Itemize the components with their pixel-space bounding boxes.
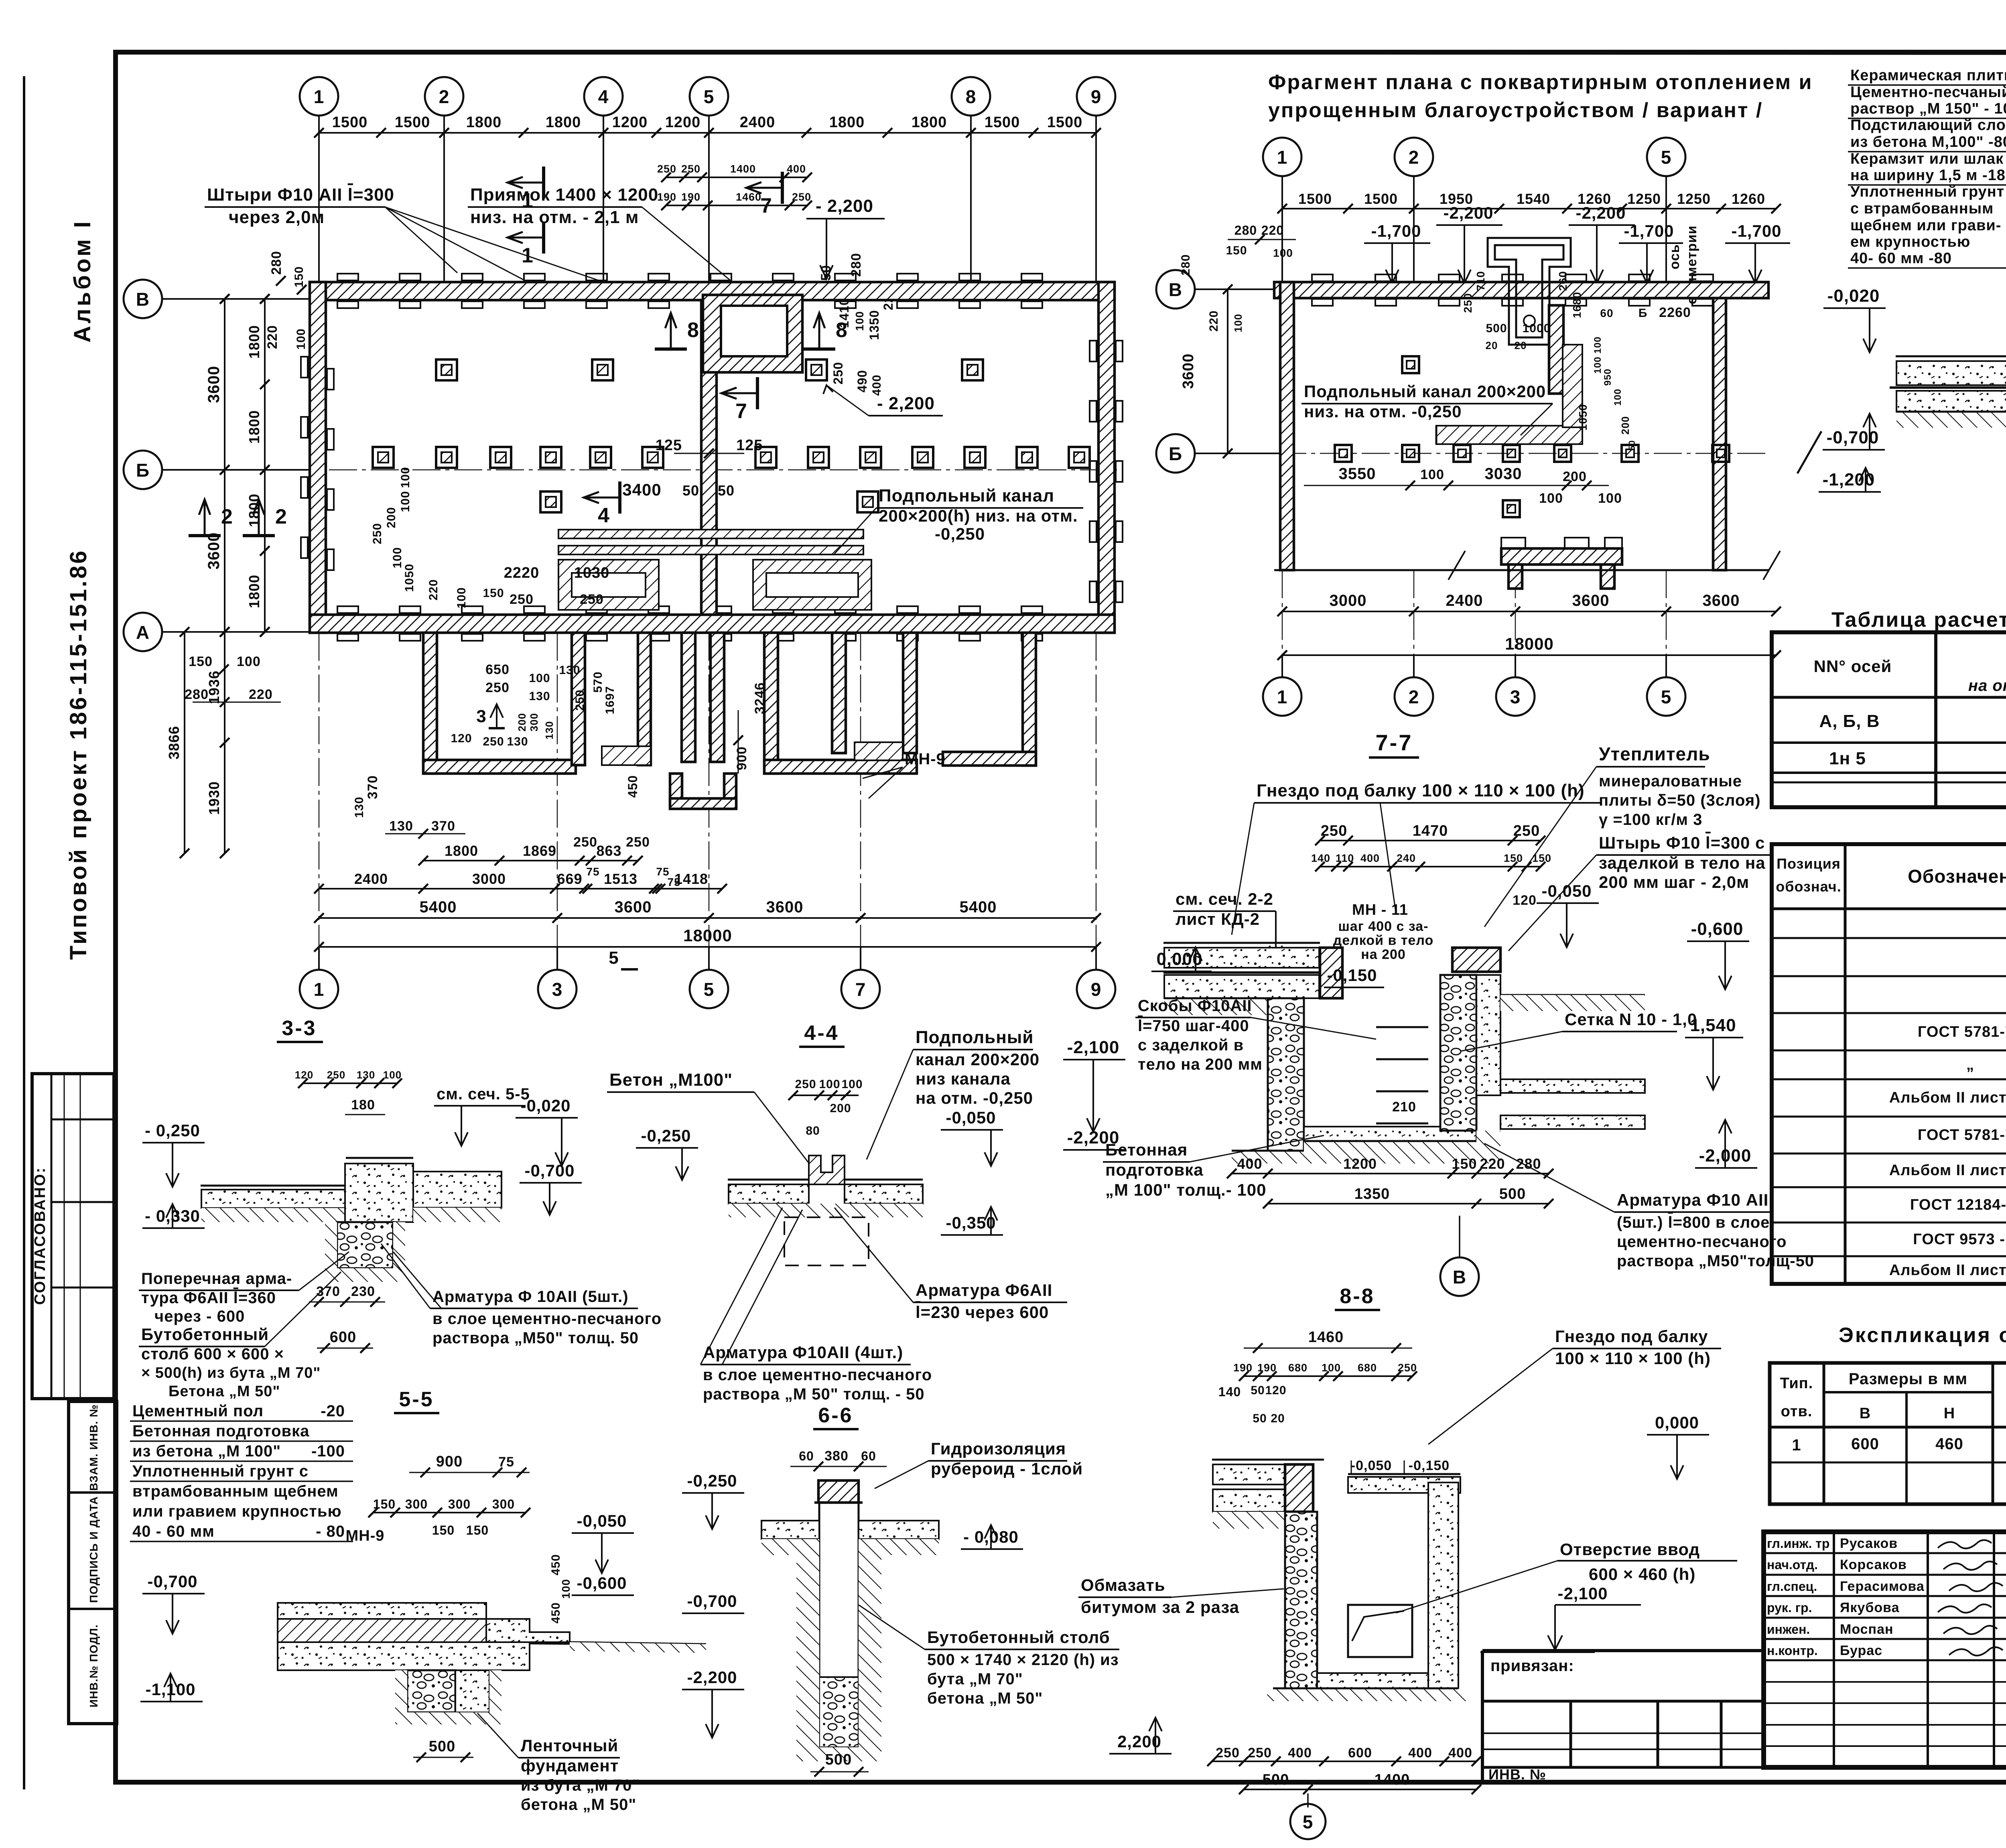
svg-text:Фрагмент плана с поквартирн: Фрагмент плана с поквартирным отоплением… <box>1268 71 1813 94</box>
svg-text:Сетка N 10 - 1,0: Сетка N 10 - 1,0 <box>1565 1010 1697 1029</box>
svg-text:Арматура Ф6АII: Арматура Ф6АII <box>916 1281 1052 1300</box>
fragment axis circles В Б left <box>1156 270 1195 309</box>
svg-text:-0,050: -0,050 <box>1351 1458 1392 1473</box>
svg-text:1800: 1800 <box>246 325 262 359</box>
svg-text:- 2,200: - 2,200 <box>877 394 935 413</box>
svg-text:низ канала: низ канала <box>916 1069 1011 1088</box>
svg-text:200: 200 <box>1563 469 1587 484</box>
svg-text:250: 250 <box>657 163 676 175</box>
svg-text:1050: 1050 <box>403 564 416 592</box>
svg-text:280: 280 <box>1516 1156 1541 1172</box>
axis circle 2 (fragment) <box>1395 138 1433 176</box>
pad at 2170,1140 <box>860 447 881 468</box>
svg-text:400: 400 <box>1448 1745 1472 1761</box>
svg-text:100 × 110 × 100 (h): 100 × 110 × 100 (h) <box>1555 1349 1711 1368</box>
svg-text:1: 1 <box>314 86 325 107</box>
svg-text:9: 9 <box>1091 979 1102 1000</box>
svg-text:20: 20 <box>1515 339 1527 351</box>
bottom dim chain 5400/3600/3600/5400 <box>319 917 1096 919</box>
svg-text:50: 50 <box>1253 1412 1267 1425</box>
svg-text:280: 280 <box>1234 223 1257 238</box>
svg-text:-2,200: -2,200 <box>1443 203 1493 222</box>
svg-text:260: 260 <box>1557 271 1569 291</box>
svg-text:Обозначение: Обозначение <box>1908 866 2006 887</box>
svg-text:делкой в тело: делкой в тело <box>1333 933 1434 948</box>
fragment plan top dim chain <box>1282 208 1776 209</box>
svg-text:130: 130 <box>353 796 366 818</box>
svg-text:3600: 3600 <box>615 898 652 916</box>
svg-text:через 2,0м: через 2,0м <box>229 207 325 227</box>
svg-text:см. сеч. 2-2: см. сеч. 2-2 <box>1176 889 1273 908</box>
pad at 1113,922 <box>436 359 457 380</box>
svg-text:75: 75 <box>667 876 680 888</box>
pad at 3895,1130 <box>1554 445 1571 462</box>
pad at 1627,1140 <box>642 447 663 468</box>
svg-text:3: 3 <box>552 979 563 1000</box>
svg-text:Бетона „М 50": Бетона „М 50" <box>169 1383 280 1400</box>
pad at 1113,1140 <box>436 447 457 468</box>
svg-text:100: 100 <box>529 672 550 685</box>
svg-text:300: 300 <box>405 1497 428 1511</box>
svg-text:А: А <box>136 622 150 643</box>
section mark 2 (b) <box>243 534 275 537</box>
svg-text:- 0,250: - 0,250 <box>145 1121 200 1140</box>
svg-text:(5шт.) l=800 в слое: (5шт.) l=800 в слое <box>1617 1214 1770 1231</box>
svg-text:Тип.: Тип. <box>1780 1375 1813 1392</box>
svg-text:-0,150: -0,150 <box>1327 966 1377 985</box>
svg-text:400: 400 <box>870 374 883 396</box>
svg-text:-0,150: -0,150 <box>1409 1458 1450 1473</box>
svg-text:Якубова: Якубова <box>1840 1600 1900 1615</box>
pad at 2163,1251 <box>857 491 878 512</box>
fragment L channel <box>1436 426 1582 444</box>
leaders 4-4 <box>700 1208 782 1365</box>
7-7 left slab <box>1163 942 1320 944</box>
svg-text:600: 600 <box>1851 1435 1879 1453</box>
svg-text:-0,700: -0,700 <box>147 1572 197 1591</box>
fragment hatched chimney wall <box>1549 305 1563 394</box>
section mark 1 (top) <box>542 167 545 199</box>
svg-text:Альбом II лист 16,17: Альбом II лист 16,17 <box>1889 1162 2006 1179</box>
svg-text:1500: 1500 <box>1298 191 1332 207</box>
svg-text:100: 100 <box>237 654 261 669</box>
axis circle 4 <box>584 77 623 116</box>
svg-text:190: 190 <box>1233 1362 1253 1374</box>
axis circle 1 (fragment) <box>1263 138 1301 176</box>
svg-text:Позиция: Позиция <box>1777 855 1841 872</box>
svg-text:60: 60 <box>861 1449 876 1463</box>
svg-text:130: 130 <box>543 721 555 739</box>
svg-text:-0,020: -0,020 <box>1827 286 1880 306</box>
svg-text:гл.инж. тр: гл.инж. тр <box>1767 1536 1829 1551</box>
svg-text:200 мм шаг - 2,0м: 200 мм шаг - 2,0м <box>1599 873 1749 892</box>
svg-text:СОГЛАСОВАНО:: СОГЛАСОВАНО: <box>32 1167 49 1305</box>
pad at 2040,1140 <box>808 447 829 468</box>
svg-text:2: 2 <box>1409 147 1419 168</box>
svg-text:Бетонная: Бетонная <box>1105 1140 1188 1159</box>
svg-text:130: 130 <box>507 735 528 748</box>
svg-text:8: 8 <box>966 86 977 107</box>
svg-text:100: 100 <box>1273 247 1293 259</box>
leader lines from Штыри to wall <box>385 207 457 273</box>
7-7 dims top <box>1320 840 1541 841</box>
svg-text:1н 5: 1н 5 <box>1829 749 1866 768</box>
svg-text:Б: Б <box>136 460 150 481</box>
svg-text:1350: 1350 <box>867 310 881 340</box>
svg-text:с втрамбованным: с втрамбованным <box>1850 200 1994 217</box>
pad at 955,1140 <box>373 447 394 468</box>
section mark 4 <box>618 481 621 514</box>
leaders from arma label to pit <box>381 1244 430 1308</box>
porch right walls <box>764 633 778 774</box>
svg-text:570: 570 <box>591 671 605 692</box>
svg-text:5-5: 5-5 <box>399 1388 434 1411</box>
svg-text:1: 1 <box>314 979 325 1000</box>
svg-text:бетона „М 50": бетона „М 50" <box>521 1796 636 1813</box>
svg-text:1200: 1200 <box>612 114 648 131</box>
svg-text:Подпольный: Подпольный <box>916 1028 1033 1047</box>
svg-text:190: 190 <box>681 191 700 203</box>
svg-text:4: 4 <box>598 86 609 107</box>
svg-text:3866: 3866 <box>166 726 182 760</box>
svg-text:1800: 1800 <box>466 114 502 131</box>
svg-text:ем крупностью: ем крупностью <box>1850 234 1970 250</box>
svg-text:6-6: 6-6 <box>818 1404 853 1427</box>
svg-text:250: 250 <box>1398 1362 1417 1374</box>
svg-text:Типовой проект 186-115-151.8: Типовой проект 186-115-151.86 <box>65 549 91 960</box>
axis circle 1 (fragment bottom) <box>1263 677 1301 716</box>
svg-text:300: 300 <box>492 1497 515 1511</box>
pad at 2560,1140 <box>1017 447 1038 468</box>
svg-text:1400: 1400 <box>1375 1771 1410 1788</box>
svg-text:Таблица расчетных нагрузок: Таблица расчетных нагрузок на обрез фунд… <box>1831 608 2006 632</box>
svg-text:2: 2 <box>439 86 450 107</box>
svg-text:Керамическая плитка - 10: Керамическая плитка - 10 <box>1850 67 2006 84</box>
7-7 pit left wall rubble <box>1268 998 1304 1151</box>
pad at 3767,1268 <box>1503 500 1520 517</box>
explication grid <box>1770 1363 2006 1504</box>
svg-text:В: В <box>136 289 150 310</box>
6-6 column shaft <box>819 1503 859 1747</box>
svg-text:-100: -100 <box>311 1442 345 1460</box>
svg-text:20: 20 <box>1271 1412 1285 1425</box>
svg-text:100: 100 <box>1598 491 1622 506</box>
svg-text:„: „ <box>1966 1056 1974 1073</box>
5-5 step right <box>486 1619 570 1642</box>
far right porch walls <box>1023 633 1036 766</box>
svg-text:втрамбованным щебнем: втрамбованным щебнем <box>132 1482 339 1500</box>
svg-text:40- 60 мм -80: 40- 60 мм -80 <box>1850 250 1952 267</box>
svg-text:7: 7 <box>760 194 772 217</box>
svg-text:220: 220 <box>427 579 440 600</box>
axis circle 5 (fragment) <box>1647 138 1685 176</box>
svg-text:отв.: отв. <box>1781 1403 1813 1420</box>
svg-text:2220: 2220 <box>504 565 540 581</box>
floor slab 1-1 <box>1896 355 2006 357</box>
svg-text:190: 190 <box>1257 1362 1277 1374</box>
svg-text:Гидроизоляция: Гидроизоляция <box>931 1439 1066 1458</box>
svg-text:ВЗАМ. ИНВ. №: ВЗАМ. ИНВ. № <box>87 1404 100 1491</box>
svg-text:3400: 3400 <box>622 480 661 499</box>
svg-text:упрощенным благоустройством: упрощенным благоустройством / вариант / <box>1268 99 1763 122</box>
svg-text:Экспликация отверстий: Экспликация отверстий <box>1839 1324 2006 1347</box>
svg-text:100: 100 <box>1612 388 1623 406</box>
7-7 ground hatch bottom <box>1232 1131 1500 1164</box>
8-8 window box <box>1348 1605 1412 1657</box>
pad at 2690,1140 <box>1069 447 1090 468</box>
svg-text:100: 100 <box>1592 336 1603 353</box>
svg-text:2400: 2400 <box>354 871 388 887</box>
pad at 4063,1130 <box>1622 445 1639 462</box>
section mark 8 (left) <box>655 347 687 351</box>
pad at 2035,922 <box>806 359 827 380</box>
svg-text:7-7: 7-7 <box>1376 730 1413 755</box>
svg-text:1500: 1500 <box>1364 191 1398 207</box>
6-6 soil around shaft <box>796 1555 881 1761</box>
svg-text:250: 250 <box>573 835 597 850</box>
svg-text:× 500(h) из бута „М 70": × 500(h) из бута „М 70" <box>141 1365 321 1381</box>
svg-text:Альбом I: Альбом I <box>69 219 95 343</box>
7-7 right upper slab <box>1452 948 1500 972</box>
svg-text:3000: 3000 <box>472 871 506 887</box>
svg-text:1030: 1030 <box>574 565 610 581</box>
axis circle В (7-7) <box>1459 1216 1460 1257</box>
svg-text:рубероид - 1слой: рубероид - 1слой <box>931 1459 1083 1478</box>
axis circle 7 bottom <box>841 970 880 1008</box>
svg-text:-2,200: -2,200 <box>687 1668 737 1687</box>
svg-text:50: 50 <box>718 482 735 499</box>
svg-text:-2,200: -2,200 <box>1576 203 1626 222</box>
svg-text:100: 100 <box>399 467 412 488</box>
svg-text:-20: -20 <box>321 1402 345 1420</box>
svg-text:500: 500 <box>1499 1186 1526 1202</box>
svg-text:1: 1 <box>522 189 534 212</box>
svg-text:1800: 1800 <box>246 575 262 608</box>
svg-text:1050: 1050 <box>1577 404 1589 431</box>
svg-text:Арматура Ф 10АII (5шт.): Арматура Ф 10АII (5шт.) <box>432 1288 629 1306</box>
left vertical dim chain 3600/3600 <box>224 299 225 632</box>
svg-text:150: 150 <box>1504 852 1523 864</box>
svg-text:Моспан: Моспан <box>1840 1622 1894 1637</box>
pad at 1502,922 <box>592 359 613 380</box>
svg-text:1500: 1500 <box>1047 114 1083 131</box>
svg-text:Штырь Ф10 l=300 с: Штырь Ф10 l=300 с <box>1599 833 1765 852</box>
3-3 rubble pit <box>337 1222 393 1268</box>
svg-text:из бетона М,100" -80: из бетона М,100" -80 <box>1850 134 2006 150</box>
svg-text:2400: 2400 <box>740 114 776 131</box>
svg-text:Герасимова: Герасимова <box>1840 1579 1925 1594</box>
svg-text:обознач.: обознач. <box>1776 878 1841 895</box>
pad at 3767,1130 <box>1503 445 1520 462</box>
svg-text:- 80: - 80 <box>316 1523 345 1540</box>
svg-text:столб 600 × 600 ×: столб 600 × 600 × <box>141 1345 284 1363</box>
svg-text:150: 150 <box>1452 1156 1477 1172</box>
7-7 right wall <box>1440 975 1476 1131</box>
svg-text:ГОСТ 12184-66*: ГОСТ 12184-66* <box>1910 1196 2006 1213</box>
svg-text:1697: 1697 <box>603 686 617 715</box>
svg-text:5400: 5400 <box>960 898 997 916</box>
svg-text:из бута „М 70": из бута „М 70" <box>521 1777 640 1794</box>
svg-text:130: 130 <box>357 1069 375 1081</box>
fragment left wall <box>1280 282 1294 570</box>
svg-text:450: 450 <box>625 775 640 798</box>
svg-text:1400: 1400 <box>730 163 756 175</box>
main plan top wall (hatched) <box>310 282 1115 300</box>
svg-text:ГОСТ 5781-75: ГОСТ 5781-75 <box>1918 1127 2006 1143</box>
svg-text:710: 710 <box>1474 271 1487 291</box>
svg-text:Бетонная подготовка: Бетонная подготовка <box>132 1422 309 1440</box>
pad at 3516,909 <box>1402 356 1419 373</box>
svg-text:1460: 1460 <box>1308 1329 1344 1346</box>
svg-text:Размеры в мм: Размеры в мм <box>1849 1370 1967 1388</box>
svg-text:раствора „М50" толщ. 50: раствора „М50" толщ. 50 <box>432 1329 639 1347</box>
svg-text:2: 2 <box>221 505 233 528</box>
svg-text:250: 250 <box>1216 1745 1240 1761</box>
svg-text:250: 250 <box>831 362 845 384</box>
svg-text:1680: 1680 <box>1571 292 1583 318</box>
svg-text:1: 1 <box>1792 1436 1801 1454</box>
svg-text:низ. на отм. -0,250: низ. на отм. -0,250 <box>1304 402 1462 421</box>
svg-text:Корсаков: Корсаков <box>1840 1557 1907 1572</box>
svg-text:50: 50 <box>682 482 699 499</box>
svg-text:-2,100: -2,100 <box>1557 1584 1608 1603</box>
svg-text:3030: 3030 <box>1485 465 1522 483</box>
svg-text:450: 450 <box>549 1554 562 1575</box>
6-6 floor slabs <box>761 1521 819 1539</box>
svg-text:500: 500 <box>429 1738 455 1755</box>
svg-text:Русаков: Русаков <box>1840 1536 1898 1551</box>
svg-text:370: 370 <box>316 1284 340 1299</box>
load table grid <box>1772 632 2006 807</box>
svg-text:5: 5 <box>609 948 619 968</box>
svg-text:3550: 3550 <box>1339 465 1376 483</box>
svg-text:220: 220 <box>265 325 280 349</box>
svg-text:шаг 400 с за-: шаг 400 с за- <box>1338 919 1428 934</box>
svg-text:на ширину 1,5 м -180: на ширину 1,5 м -180 <box>1850 167 2006 184</box>
svg-text:В: В <box>1860 1405 1871 1422</box>
svg-text:250: 250 <box>327 1069 345 1081</box>
svg-text:220: 220 <box>1480 1156 1505 1172</box>
svg-text:150: 150 <box>483 587 504 600</box>
svg-text:200: 200 <box>385 507 398 528</box>
svg-text:4-4: 4-4 <box>804 1021 839 1045</box>
specification grid <box>1772 844 2006 1284</box>
svg-text:600: 600 <box>330 1329 356 1346</box>
svg-text:щебнем или грави-: щебнем или грави- <box>1850 217 2001 234</box>
svg-text:„М 100" толщ.- 100: „М 100" толщ.- 100 <box>1105 1180 1266 1199</box>
axis circle 2 <box>425 77 463 116</box>
svg-text:680: 680 <box>1358 1362 1377 1374</box>
svg-text:250: 250 <box>580 592 604 607</box>
svg-text:130: 130 <box>529 690 550 703</box>
svg-text:-0,050: -0,050 <box>577 1511 627 1530</box>
svg-text:ИНВ. №: ИНВ. № <box>1488 1766 1546 1783</box>
4-4 dims <box>793 1095 859 1096</box>
svg-text:-0,700: -0,700 <box>524 1161 575 1180</box>
svg-text:100: 100 <box>391 547 404 568</box>
svg-text:в слое цементно-песчаного: в слое цементно-песчаного <box>432 1310 662 1328</box>
center channel walls below bottom wall <box>682 633 695 762</box>
axis circle 1 <box>300 77 338 116</box>
svg-text:Альбом II лист 16,17: Альбом II лист 16,17 <box>1889 1262 2006 1279</box>
svg-text:Гнездо под балку 100 × 110: Гнездо под балку 100 × 110 × 100 (h) <box>1257 781 1585 800</box>
svg-text:5: 5 <box>704 979 715 1000</box>
fragment bottom dim chains <box>1282 611 1776 612</box>
axis circle 8 <box>952 77 990 116</box>
svg-text:Отверстие ввод: Отверстие ввод <box>1560 1540 1700 1559</box>
svg-text:100: 100 <box>1539 491 1563 506</box>
svg-text:1800: 1800 <box>246 410 262 444</box>
svg-text:Подстилающий слой: Подстилающий слой <box>1850 117 2006 134</box>
svg-text:950: 950 <box>1602 368 1613 386</box>
svg-text:4: 4 <box>598 504 610 527</box>
svg-text:раствора „М 50" толщ. - 50: раствора „М 50" толщ. - 50 <box>703 1385 925 1403</box>
svg-text:250: 250 <box>510 592 534 607</box>
svg-text:Н: Н <box>1944 1405 1955 1422</box>
svg-text:ПОДПИСЬ И ДАТА: ПОДПИСЬ И ДАТА <box>87 1496 100 1603</box>
svg-text:на отм. - 1,200: на отм. - 1,200 <box>1968 677 2006 695</box>
svg-text:ГОСТ 9573 - 82: ГОСТ 9573 - 82 <box>1913 1231 2006 1248</box>
svg-text:300: 300 <box>528 713 540 731</box>
sheet outer paper edge line <box>23 76 25 1789</box>
svg-text:рук. гр.: рук. гр. <box>1767 1600 1812 1615</box>
svg-text:2400: 2400 <box>1446 592 1483 609</box>
small dims near priyamok: 250 250 1400 400 <box>666 177 807 178</box>
svg-text:8: 8 <box>687 319 699 342</box>
svg-text:900: 900 <box>734 746 749 770</box>
svg-text:3-3: 3-3 <box>282 1017 317 1040</box>
svg-text:3000: 3000 <box>1330 592 1367 609</box>
svg-text:40 - 60 мм: 40 - 60 мм <box>132 1523 215 1540</box>
svg-text:250: 250 <box>626 835 650 850</box>
svg-text:2: 2 <box>275 505 287 528</box>
svg-text:- 2,200: - 2,200 <box>816 196 873 216</box>
svg-text:Бетон „М100": Бетон „М100" <box>609 1070 733 1090</box>
svg-text:1800: 1800 <box>546 114 581 131</box>
svg-text:3: 3 <box>1510 686 1521 707</box>
svg-text:Арматура Ф10 АII: Арматура Ф10 АII <box>1617 1190 1768 1209</box>
bottom dim chain 1800/1869/250/863/250 <box>423 860 638 861</box>
svg-text:5: 5 <box>704 86 715 107</box>
left lower vertical dims 1936/1930 + 3866 <box>224 632 225 853</box>
svg-text:3600: 3600 <box>1572 592 1610 609</box>
svg-text:200×200(h) низ. на отм.: 200×200(h) низ. на отм. <box>879 506 1078 525</box>
svg-text:370: 370 <box>365 775 380 799</box>
svg-text:3600: 3600 <box>205 366 223 403</box>
axis circle А <box>124 613 162 651</box>
svg-text:220: 220 <box>249 687 273 702</box>
svg-text:из бетона „М 100": из бетона „М 100" <box>132 1442 281 1460</box>
svg-text:8-8: 8-8 <box>1340 1285 1375 1308</box>
svg-text:низ. на отм. - 2,1 м: низ. на отм. - 2,1 м <box>470 207 639 227</box>
fragment bottom cut line <box>1274 569 1768 571</box>
svg-text:490: 490 <box>855 370 869 392</box>
fragment right wall on axis 5 <box>1713 298 1726 570</box>
svg-text:-0,600: -0,600 <box>1691 919 1744 939</box>
svg-text:через - 600: через - 600 <box>154 1308 245 1325</box>
svg-text:100: 100 <box>399 491 412 512</box>
svg-text:200: 200 <box>830 1102 851 1115</box>
svg-text:240: 240 <box>1397 852 1416 864</box>
svg-text:130: 130 <box>389 818 413 834</box>
svg-text:-1,700: -1,700 <box>1624 221 1674 240</box>
svg-text:220: 220 <box>1207 310 1220 331</box>
svg-text:150: 150 <box>1226 244 1247 257</box>
svg-text:Ленточный: Ленточный <box>521 1736 618 1755</box>
5-5 rubble pit <box>407 1670 455 1712</box>
break marks on bottom cut line <box>1448 551 1465 580</box>
svg-text:1800: 1800 <box>246 493 262 527</box>
